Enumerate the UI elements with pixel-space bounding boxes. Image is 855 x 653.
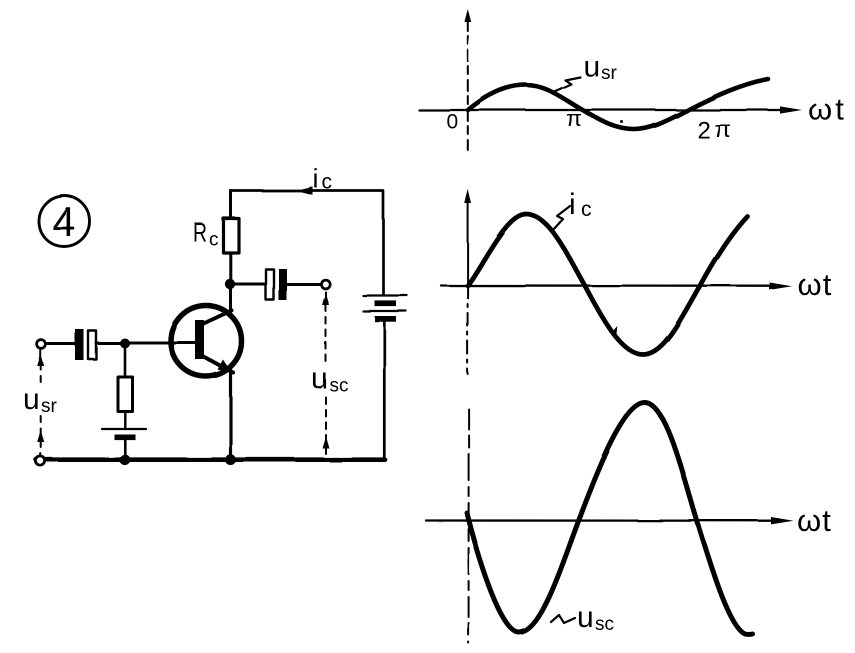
wire C2 to output terminal: [287, 283, 321, 286]
plot3 label wt: [797, 503, 832, 538]
plot1 curve speck: [621, 121, 624, 124]
svg-text:c: c: [581, 198, 592, 221]
transistor Q1 base bar: [195, 320, 204, 359]
plot1 vertical axis with arrow: [464, 9, 471, 150]
battery B2 (supply): [363, 296, 407, 322]
svg-text:sc: sc: [595, 614, 614, 635]
svg-text:u: u: [311, 362, 328, 395]
plot3 horizontal axis wt with arrow: [426, 517, 794, 524]
plot1 curve u_sr: [468, 79, 768, 130]
resistor Rc: [224, 219, 240, 254]
wire Rc to top rail: [230, 191, 233, 219]
transistor Q1 collector stroke: [202, 311, 232, 325]
plot2 vertical axis with arrow: [464, 189, 471, 374]
plot3 curve u_sc: [467, 403, 753, 635]
plot1 label wt: [808, 92, 847, 127]
plot1 label u_sr with pointer: [553, 50, 618, 92]
label Rc: [193, 218, 219, 251]
wire B1 to bottom rail: [124, 440, 127, 459]
wire B2 to bottom rail: [383, 322, 386, 460]
svg-text:ωt: ωt: [808, 92, 847, 127]
svg-text:ωt: ωt: [797, 503, 832, 538]
svg-text:π: π: [714, 116, 731, 142]
transistor Q1 emitter stroke with arrow: [202, 356, 234, 373]
plot2 label i_c with pointer: [552, 188, 592, 231]
node base junction: [120, 338, 130, 348]
label u_sr: [23, 383, 58, 417]
node emitter to rail junction: [225, 454, 236, 465]
u_sr dashed voltage arrow: [37, 351, 44, 455]
svg-text:c: c: [322, 171, 333, 194]
svg-text:sr: sr: [41, 396, 58, 417]
plot2 curve direction barb: [612, 326, 618, 335]
wire collector up to node: [229, 284, 232, 312]
ic current arrow on top rail: [296, 187, 313, 195]
transistor Q1 circle: [171, 306, 242, 377]
wire R1 to bias battery: [124, 411, 126, 428]
svg-text:R: R: [193, 218, 207, 248]
plot1 label 0: [447, 111, 459, 134]
svg-text:u: u: [577, 601, 594, 634]
svg-text:0: 0: [447, 111, 459, 134]
svg-text:4: 4: [52, 198, 75, 245]
wire node up to Rc: [229, 253, 232, 279]
plot2 label wt: [797, 267, 832, 302]
wire C1 to base node: [96, 342, 121, 345]
input terminal (u_sr top): [37, 340, 46, 349]
plot1 label pi: [566, 106, 582, 131]
battery B1 (bias cell): [102, 429, 146, 440]
svg-text:c: c: [209, 230, 219, 251]
node bias to rail junction: [119, 454, 130, 465]
plot1 horizontal axis wt with arrow: [419, 106, 802, 113]
plot2 curve i_c: [468, 214, 748, 355]
capacitor C1 (input coupling): [75, 329, 96, 360]
svg-text:ωt: ωt: [797, 267, 832, 302]
plot3 label u_sc with pointer: [551, 601, 614, 635]
plot1 label 2pi: [697, 116, 731, 144]
wire base node to transistor base: [129, 341, 196, 344]
svg-text:u: u: [583, 50, 600, 83]
wire bottom rail: [36, 457, 385, 462]
label u_sc: [311, 362, 348, 396]
label ic (current): [313, 164, 333, 194]
svg-text:i: i: [313, 164, 319, 194]
u_sc dashed voltage arrow: [322, 292, 329, 456]
svg-text:sc: sc: [329, 375, 348, 396]
wire emitter down to rail: [229, 370, 232, 458]
svg-text:i: i: [569, 188, 576, 221]
figure number 4 (circled): [39, 196, 90, 247]
svg-text:sr: sr: [601, 63, 618, 84]
wire input terminal to C1: [47, 343, 76, 346]
wire top rail with corner: [231, 191, 384, 295]
plot3 vertical axis dashed: [468, 409, 470, 643]
capacitor C2 (output coupling): [266, 269, 287, 301]
wire node to C2: [235, 283, 265, 286]
svg-text:u: u: [23, 383, 40, 416]
bottom-left terminal (u_sr bottom): [36, 456, 45, 465]
wire base node down to R1: [123, 348, 126, 377]
node collector junction: [225, 279, 235, 289]
plot2 horizontal axis wt with arrow: [441, 282, 792, 289]
resistor R1 (bias): [118, 377, 133, 412]
svg-text:2: 2: [697, 117, 710, 144]
output terminal (u_sc top): [321, 280, 330, 289]
